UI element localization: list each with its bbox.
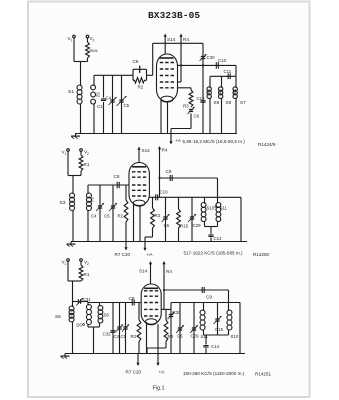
svg-text:1: 1 (71, 39, 73, 43)
svg-text:C11: C11 (224, 69, 232, 74)
trimmer C6 (stage 1) (189, 109, 193, 111)
tube top electrode bar (stage 1) (160, 57, 174, 59)
wire S3 to ground bus (72, 211, 74, 242)
svg-text:2: 2 (93, 39, 95, 43)
wire R3 elbow (stage 3) (165, 342, 167, 349)
svg-text:C14: C14 (211, 344, 220, 349)
svg-text:S3: S3 (60, 200, 66, 206)
terminal V2 (stage 2) (80, 149, 83, 152)
wire join V1-V2 (stage 3) (68, 280, 81, 282)
trimmer C4 (stage 3) (119, 303, 121, 354)
inductor S10 (stage 3) (227, 310, 232, 315)
variable capacitor C5 (stage 1) (121, 75, 123, 133)
svg-text:C30: C30 (207, 55, 216, 60)
capacitor C14 (stage 2) (210, 227, 212, 234)
arrow R4 (stage 1) (180, 35, 182, 44)
resistor R3 (stage 1) (190, 88, 192, 90)
svg-text:068: 068 (218, 89, 222, 95)
trimmer C4 (stage 2) (99, 185, 101, 242)
trimmer C29 (stage 2) (191, 197, 193, 241)
svg-text:C9: C9 (206, 295, 212, 300)
wire V1 down (stage 2) (67, 152, 69, 176)
wire V1 down (stage 1) (73, 38, 75, 62)
resistor RM1 (87, 38, 89, 42)
svg-text:R2: R2 (118, 214, 124, 219)
inductor S10 (stage 2) (204, 197, 206, 202)
inductor S3 (70, 193, 75, 198)
arrow R4 (stage 2) (159, 147, 161, 152)
anode rail stub (stage 3) (161, 308, 171, 310)
tube electrode dashed rows (stage 3) (144, 290, 158, 292)
coupling circle (stage 2) (215, 206, 217, 208)
svg-text:Fig.1: Fig.1 (153, 386, 165, 392)
screen stub y82 (stage 1) (178, 81, 182, 83)
svg-text:C6: C6 (177, 334, 183, 339)
svg-text:+A: +A (175, 138, 182, 144)
svg-text:BX323B-05: BX323B-05 (148, 10, 200, 21)
wire down to S3 (72, 176, 74, 194)
right branch to bus (stage 2) (240, 197, 242, 241)
inductor S11 (stage 2) (216, 203, 221, 208)
trimmer C6 (stage 2) (165, 197, 167, 241)
svg-text:C10: C10 (218, 58, 227, 63)
terminal V1 (stage 1) (73, 35, 76, 38)
capacitor C10 (stage 1) (215, 62, 217, 68)
pentode tube V2 (stage 2) (129, 163, 149, 206)
svg-text:S10: S10 (231, 334, 239, 339)
wire join V1-V2 (stage 1) (87, 58, 89, 62)
ground bus (stage 1) (75, 133, 237, 135)
inductor S11 (stage 3) (203, 303, 205, 311)
svg-text:+A: +A (147, 252, 154, 258)
svg-text:C6: C6 (164, 223, 170, 228)
svg-text:S1: S1 (68, 89, 74, 95)
anode rail (stage 1) (178, 64, 237, 66)
svg-text:C10: C10 (160, 190, 169, 195)
inductor S8 (stage 3) (99, 303, 101, 306)
inductor S4 (87, 185, 89, 193)
wire C9 corner down to S10 (stage 3) (228, 290, 230, 310)
suppressor stub to R3 (stage 1) (178, 87, 192, 89)
inductor S6 (87, 302, 89, 305)
variable capacitor C15 (217, 303, 219, 336)
wire R3 elbow to +A (stage 2) (152, 228, 154, 237)
top wire to S14/R4 (stage 1) (153, 42, 203, 44)
svg-text:R15: R15 (180, 224, 189, 229)
ground (stage 2) (70, 242, 72, 245)
arrow +A (stage 2) (144, 242, 146, 250)
inductor S5 (69, 306, 74, 311)
terminal V1 (stage 3) (67, 259, 70, 262)
wire corner to C11 rail (stage 1) (235, 65, 237, 76)
right branch to bus (stage 3) (239, 303, 241, 354)
wire down to S1 (80, 62, 82, 86)
tube top electrode bar (stage 3) (144, 287, 158, 289)
tube cathode wires to bus (stage 2) (133, 204, 135, 242)
capacitor C8 (stage 3) (131, 300, 133, 306)
wire S14 to tube top (stage 2) (138, 156, 140, 163)
svg-text:S10: S10 (207, 206, 215, 211)
tube cathode wires to bus (stage 1) (160, 99, 162, 134)
grid top wire (stage 3) (88, 302, 141, 304)
svg-text:C9: C9 (166, 169, 172, 174)
svg-text:068: 068 (232, 89, 236, 95)
resistor R1 (stage 2) (80, 152, 82, 156)
grid bus wire (stage 2) (88, 184, 129, 186)
inductor S1 (77, 85, 82, 90)
capacitor C9 (stage 3) (164, 289, 229, 291)
wire grid elbow up (stage 1) (152, 43, 154, 75)
svg-text:517-1622 KC/S (185-585 m.): 517-1622 KC/S (185-585 m.) (184, 251, 243, 256)
arrow +A (stage 3) (157, 354, 159, 365)
arrow S14 (stage 1) (164, 35, 166, 44)
capacitor C10 (stage 2) (155, 194, 157, 200)
wire R4 down to anode rail (stage 2) (159, 152, 161, 197)
svg-text:C4: C4 (106, 96, 112, 101)
svg-text:C5: C5 (121, 334, 127, 339)
pentode tube V1 (stage 1) (157, 54, 178, 102)
capacitor C12 branch (stage 1) (202, 65, 204, 133)
svg-text:C8: C8 (114, 174, 120, 179)
svg-text:R3: R3 (155, 213, 161, 218)
capacitor C32 (112, 303, 114, 354)
wire bracket to bus (stage 3 left) (93, 327, 95, 354)
inductor S7 (235, 76, 237, 87)
svg-text:2: 2 (87, 152, 89, 156)
capacitor C1 (103, 75, 105, 97)
wire C8 to grid elbow (147, 74, 153, 76)
tube top electrode bar (stage 2) (132, 166, 146, 168)
trimmer C5 (stage 2) (112, 185, 114, 242)
inductor S8 (stage 1) (221, 76, 223, 87)
svg-text:C29: C29 (191, 334, 200, 339)
svg-text:S8: S8 (104, 313, 110, 318)
capacitor C9 (stage 2) (160, 177, 218, 179)
tube cathode wires to bus (stage 3) (146, 322, 148, 354)
svg-text:S14: S14 (139, 269, 148, 274)
transformer bottom bracket (stage 3 left) (87, 325, 89, 328)
svg-text:S9: S9 (214, 100, 220, 105)
anode rail (stage 2) (149, 196, 241, 198)
wire S5 to ground bus (72, 322, 74, 354)
ground (stage 3) (64, 354, 66, 357)
svg-text:C15: C15 (215, 327, 224, 332)
ground bus (stage 3) (65, 353, 245, 355)
svg-text:R14251: R14251 (255, 372, 272, 377)
terminal V1 (stage 2) (67, 149, 70, 152)
trimmer C30 (stage 3) (170, 303, 172, 354)
svg-text:C8: C8 (129, 296, 135, 301)
wire R4 down to anode rail (stage 3) (163, 266, 165, 309)
resistor R3 (stage 3) (165, 309, 167, 320)
svg-text:R4: R4 (166, 269, 172, 274)
svg-text:C1: C1 (97, 104, 103, 109)
trimmer C29 (stage 3) (193, 303, 195, 354)
tube electrode dashed rows (stage 2) (132, 171, 146, 173)
svg-text:R7 C20: R7 C20 (126, 370, 142, 375)
svg-text:C6: C6 (194, 114, 200, 119)
svg-text:1: 1 (65, 262, 67, 266)
capacitor C8 (stage 2) (116, 182, 118, 188)
svg-text:150-260 KC/S (1150-2000 m.): 150-260 KC/S (1150-2000 m.) (183, 371, 245, 376)
svg-text:R4: R4 (162, 148, 168, 153)
svg-text:S14: S14 (142, 148, 151, 153)
ground (stage 1) (74, 133, 76, 135)
svg-text:S5: S5 (55, 314, 61, 320)
trimmer C6 (stage 3) (179, 303, 181, 354)
svg-text:C31: C31 (83, 297, 91, 302)
svg-text:C29: C29 (193, 223, 202, 228)
trimmer C4 (stage 1) (112, 75, 114, 133)
capacitor C11 (227, 74, 229, 80)
svg-text:R14250: R14250 (253, 252, 270, 257)
arrow R7/C20 (stage 2) (125, 242, 127, 250)
svg-text:S6: S6 (76, 323, 82, 329)
svg-text:R4: R4 (183, 37, 189, 42)
trimmer C30 (stage 1) (202, 43, 204, 65)
svg-text:R2: R2 (138, 85, 144, 90)
wire join V1-V2 (stage 2) (80, 171, 82, 176)
wire to tube top cap (stage 1) (164, 43, 166, 54)
pentode tube V3 (stage 3) (141, 284, 161, 324)
wire C9 corner down to S11 (stage 2) (217, 178, 219, 203)
svg-text:S2: S2 (96, 92, 101, 98)
arrow R7/C20 (stage 3) (137, 354, 139, 365)
svg-text:C12: C12 (197, 96, 206, 101)
svg-text:068: 068 (206, 89, 210, 95)
terminal V2 (stage 3) (80, 259, 83, 262)
trimmer C31 link (73, 301, 89, 303)
svg-text:S14: S14 (167, 37, 176, 42)
resistor R3 (stage 2) (152, 197, 154, 208)
svg-text:S11: S11 (220, 206, 228, 211)
svg-text:2: 2 (87, 262, 89, 266)
C11 rail wire (stage 1) (210, 75, 236, 77)
svg-text:C4: C4 (91, 214, 97, 219)
ladder top wire (stage 3) (171, 302, 240, 304)
svg-text:R1424/9: R1424/9 (258, 142, 276, 147)
svg-text:C8: C8 (133, 59, 139, 64)
resistor R15 (178, 197, 180, 209)
transformer bottom bracket (stage 3 right) (203, 330, 205, 335)
svg-text:1: 1 (65, 152, 67, 156)
svg-text:C32: C32 (103, 332, 112, 337)
svg-text:S7: S7 (240, 100, 246, 105)
resistor R2 (stage 3) (138, 303, 140, 321)
wire R4 down to anode rail (stage 1) (180, 43, 182, 82)
svg-text:C14: C14 (214, 236, 223, 241)
wire S1 to ground bus (80, 104, 82, 134)
svg-text:R3: R3 (183, 104, 189, 109)
trimmer C5 (stage 3) (125, 303, 127, 354)
svg-text:R2: R2 (131, 334, 137, 339)
svg-text:C5: C5 (124, 103, 130, 108)
terminal V2 (stage 1) (86, 35, 89, 38)
svg-text:5,95-18,2 MC/S (16,5-50,5 m.): 5,95-18,2 MC/S (16,5-50,5 m.) (183, 139, 246, 144)
grid bus wire (stage 1) (94, 74, 133, 76)
transformer bottom bracket (stage 2) (204, 222, 206, 227)
svg-text:RM1: RM1 (90, 48, 99, 53)
svg-text:C4: C4 (114, 334, 120, 339)
svg-text:R7 C20: R7 C20 (115, 252, 131, 257)
arrow S14 (stage 2) (138, 148, 140, 156)
arrow R4 (stage 3) (163, 262, 165, 266)
resistor R2 (stage 2) (125, 185, 127, 200)
arrow S14 (stage 3) (150, 262, 152, 266)
tube electrode dashed rows (stage 1) (160, 62, 174, 64)
svg-text:+A: +A (159, 370, 166, 376)
svg-text:S8: S8 (226, 100, 232, 105)
wire V1 down (stage 3) (67, 262, 69, 282)
svg-text:R1: R1 (84, 272, 90, 277)
wire S14 to tube top (stage 3) (150, 266, 152, 285)
wire down to S5 (72, 281, 74, 306)
inductor S2 (93, 75, 95, 85)
resistor R1 (stage 3) (80, 262, 82, 266)
svg-text:R1: R1 (84, 162, 90, 167)
arrow +A (stage 1) (170, 134, 172, 144)
inductor S9 (209, 76, 211, 87)
wire R3 elbow to +A (stage 1) (171, 128, 191, 130)
capacitor C14 (stage 3) (205, 335, 207, 345)
svg-text:C5: C5 (104, 214, 110, 219)
ground bus (stage 2) (71, 241, 247, 243)
svg-text:S4: S4 (90, 197, 95, 203)
